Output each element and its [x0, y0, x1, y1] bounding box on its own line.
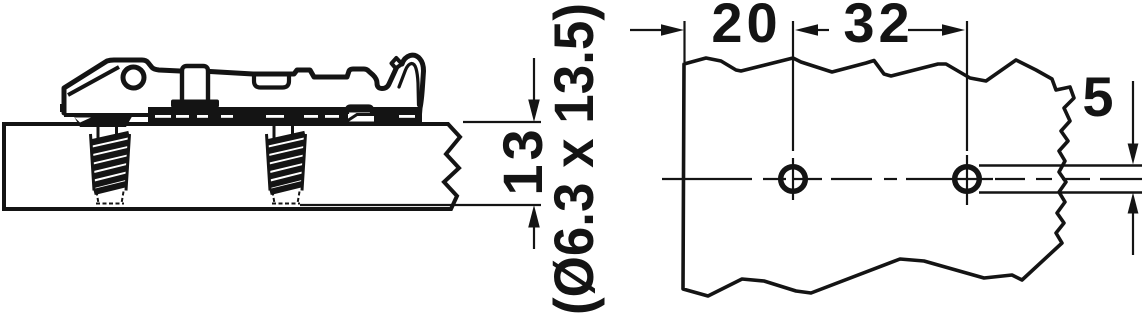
euro screw right	[267, 124, 306, 204]
dimension 20	[630, 29, 666, 31]
nose skid foot	[72, 113, 134, 127]
plate top edge right of boss	[210, 63, 400, 89]
drilling panel outline	[683, 58, 1074, 296]
hole 2	[955, 167, 980, 192]
hole 2 center ticks	[956, 155, 993, 205]
nose left edge nub	[60, 104, 65, 112]
top dimension extension lines	[685, 21, 968, 151]
plate nose inner diagonal	[68, 67, 119, 95]
nose bottom line	[64, 113, 152, 117]
screw tip reference line	[300, 204, 541, 206]
5mm slot lines	[979, 164, 1142, 166]
mounting plate base bar	[148, 107, 422, 122]
svg-text:5: 5	[1082, 65, 1113, 128]
hole 1	[781, 167, 806, 192]
plate recess pocket	[254, 73, 289, 88]
plate hole circle	[123, 67, 144, 88]
svg-text:(Ø6.3 x 13.5): (Ø6.3 x 13.5)	[542, 3, 605, 315]
panel centerline	[662, 178, 1142, 180]
board (side view panel)	[4, 124, 460, 209]
plate boss	[182, 66, 208, 101]
plate hook inner line	[399, 64, 419, 106]
svg-text:20: 20	[711, 0, 781, 54]
hole 1 center ticks	[763, 158, 822, 200]
euro screw left	[91, 124, 130, 204]
dimension 13 extension line top	[463, 121, 541, 123]
base bar step notch	[348, 113, 374, 122]
dimension 32	[816, 29, 829, 31]
mounting plate outline	[64, 60, 180, 113]
plate hook beak	[392, 58, 403, 68]
base bar white dashes	[155, 115, 415, 118]
plate hook	[402, 55, 424, 114]
boss foot bar	[171, 100, 219, 108]
dimension 13 line and arrows	[533, 58, 535, 249]
svg-text:32: 32	[843, 0, 913, 54]
plate right tab	[347, 107, 372, 115]
